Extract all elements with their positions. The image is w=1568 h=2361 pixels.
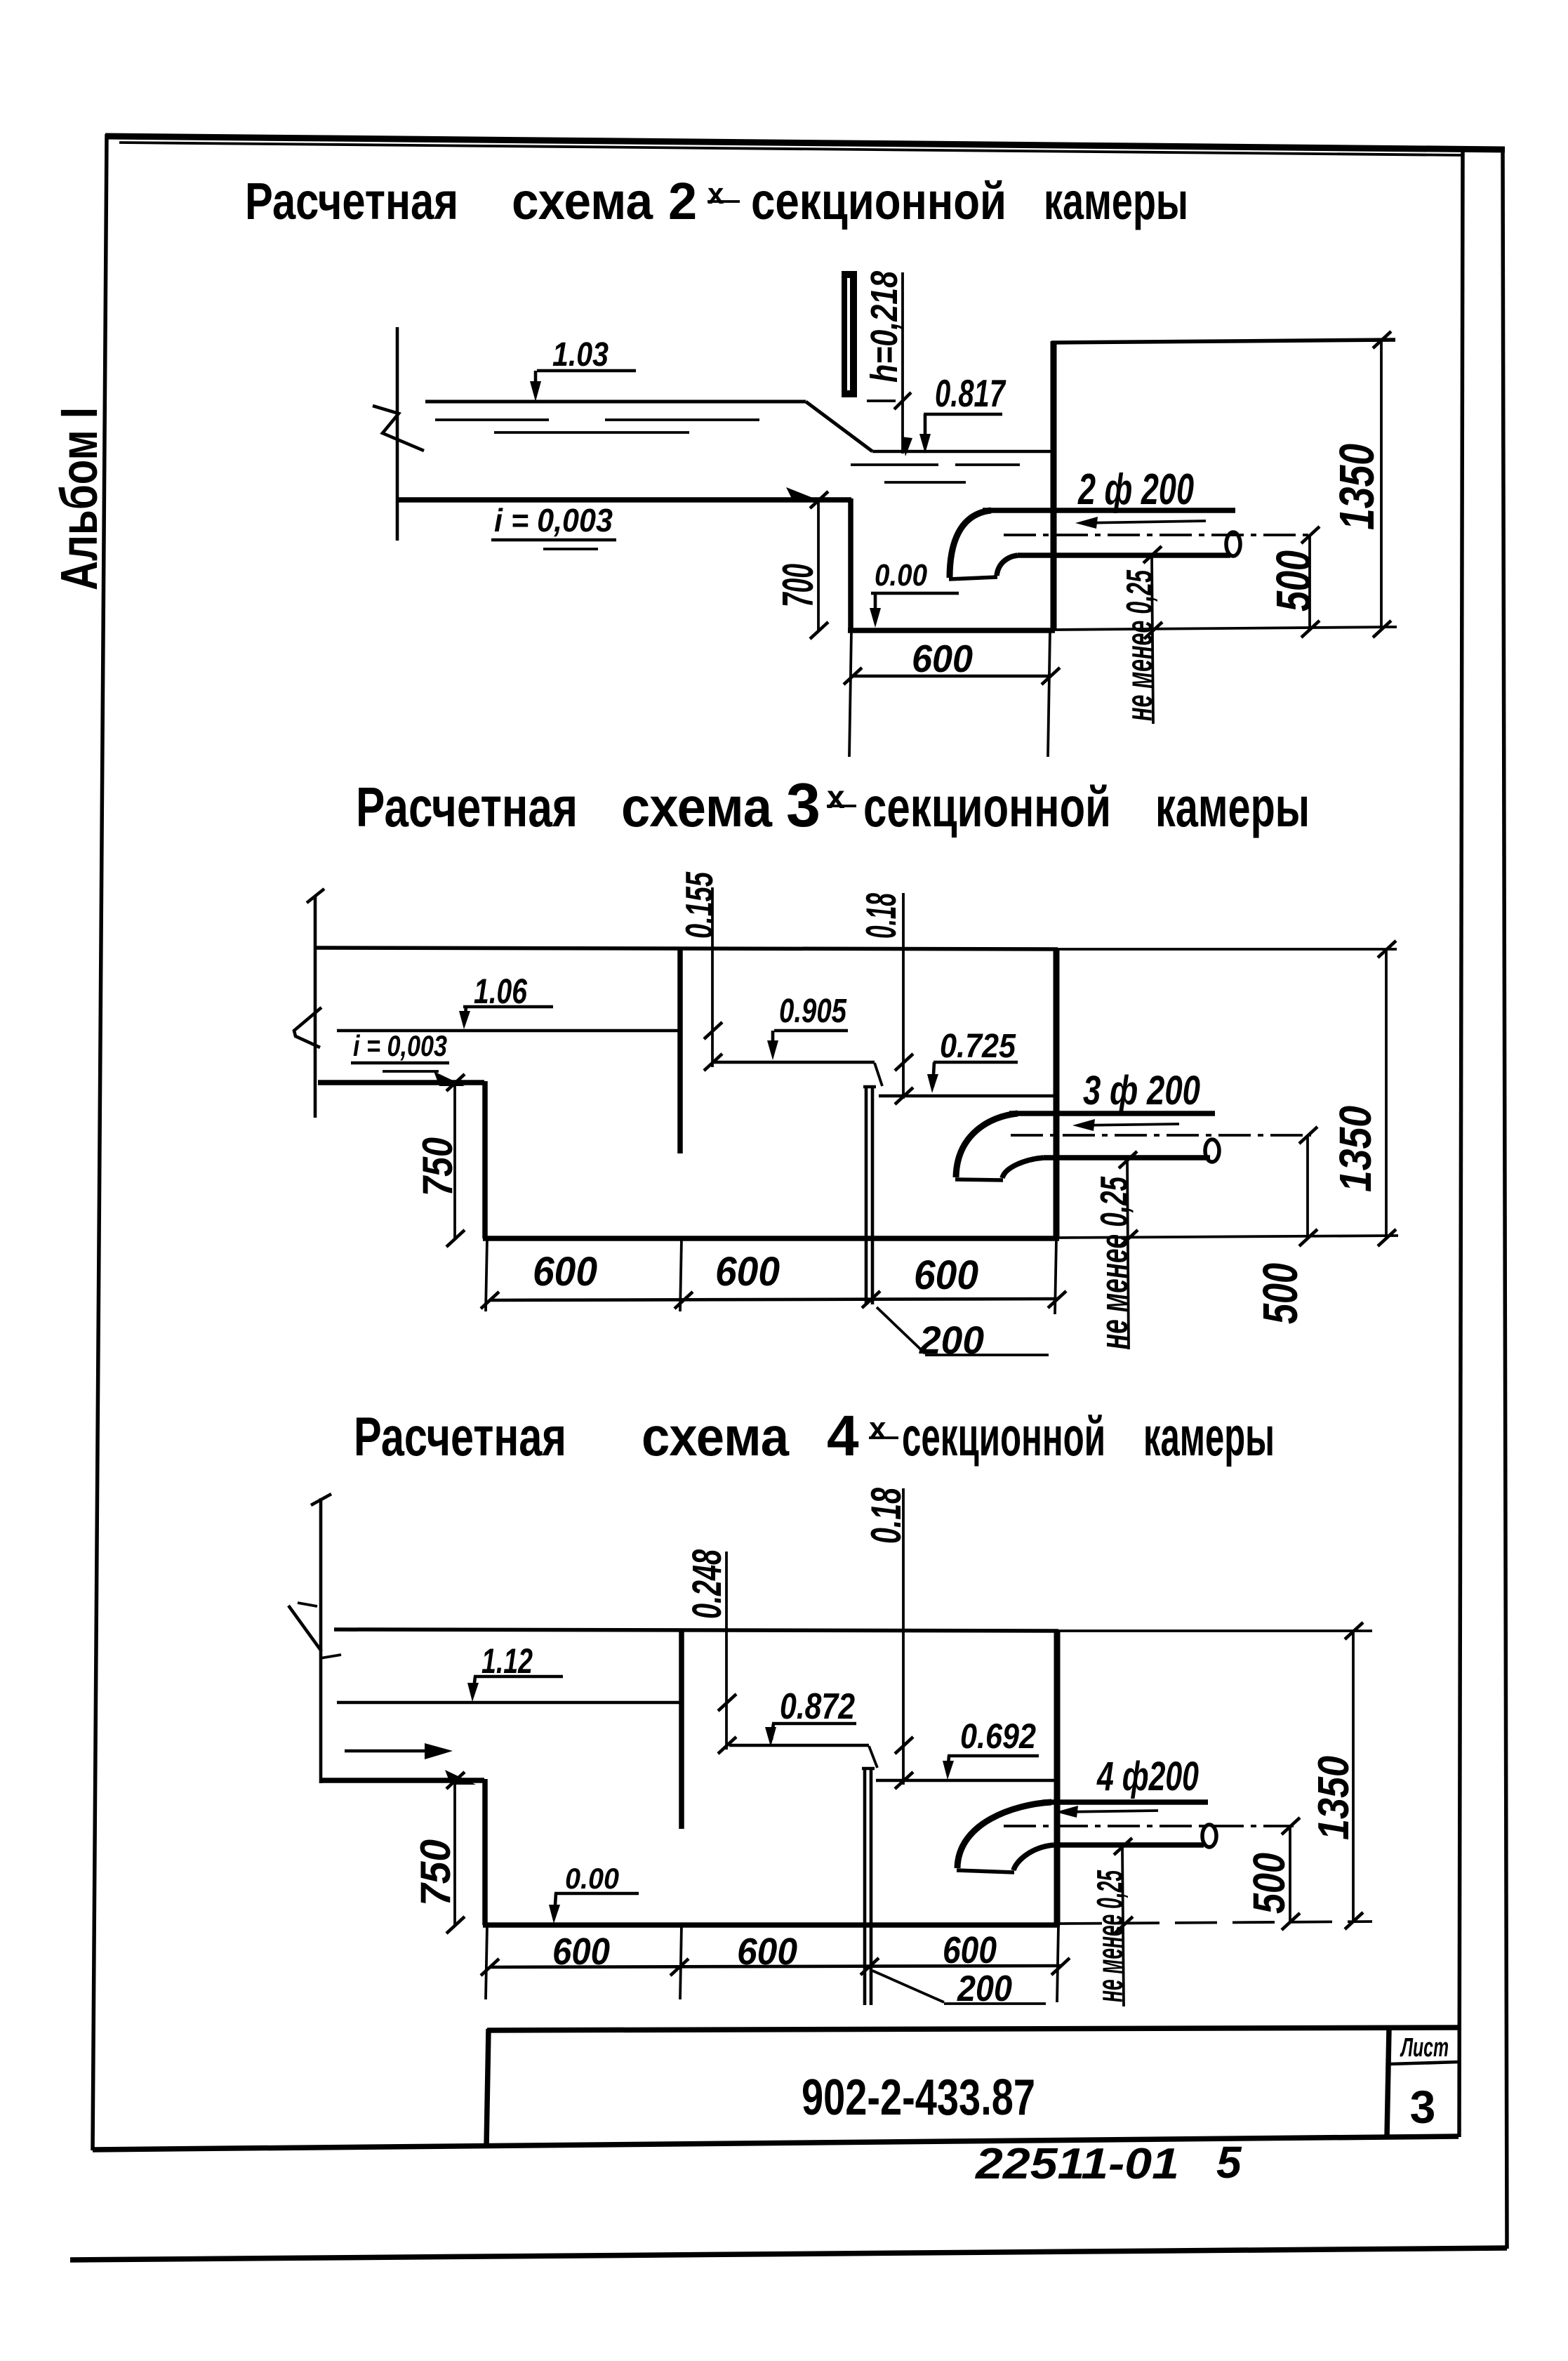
svg-text:200: 200 — [957, 1969, 1012, 2009]
svg-text:600: 600 — [715, 1249, 780, 1295]
svg-text:4 ф200: 4 ф200 — [1096, 1754, 1199, 1799]
svg-text:600: 600 — [552, 1931, 610, 1973]
svg-text:0.18: 0.18 — [863, 1488, 910, 1544]
svg-text:не менее 0,25: не менее 0,25 — [1119, 569, 1160, 721]
svg-text:1.06: 1.06 — [474, 972, 528, 1011]
svg-text:700: 700 — [774, 564, 823, 607]
svg-text:22511-01: 22511-01 — [975, 2140, 1179, 2188]
svg-text:0.18: 0.18 — [858, 893, 905, 939]
svg-text:0.817: 0.817 — [935, 371, 1006, 415]
svg-text:2 ф 200: 2 ф 200 — [1077, 465, 1194, 514]
svg-text:1.12: 1.12 — [481, 1641, 533, 1681]
svg-text:1.03: 1.03 — [552, 336, 609, 373]
svg-text:600: 600 — [533, 1249, 597, 1295]
svg-text:0.692: 0.692 — [960, 1717, 1036, 1756]
svg-text:3 ф 200: 3 ф 200 — [1083, 1068, 1200, 1113]
svg-text:h=0,218: h=0,218 — [863, 271, 905, 383]
svg-text:750: 750 — [414, 1137, 461, 1196]
svg-text:i = 0,003: i = 0,003 — [494, 502, 613, 538]
svg-text:3: 3 — [1410, 2081, 1436, 2133]
svg-text:600: 600 — [943, 1929, 997, 1971]
svg-text:0.155: 0.155 — [677, 871, 721, 939]
svg-text:500: 500 — [1253, 1263, 1308, 1324]
svg-text:0.00: 0.00 — [565, 1862, 619, 1895]
svg-text:0.872: 0.872 — [780, 1686, 855, 1727]
svg-text:500: 500 — [1244, 1853, 1294, 1914]
svg-text:1350: 1350 — [1329, 444, 1384, 530]
svg-text:1350: 1350 — [1310, 1756, 1358, 1840]
svg-text:Альбом I: Альбом I — [50, 407, 108, 590]
svg-text:Лист: Лист — [1400, 2033, 1449, 2063]
svg-text:200: 200 — [919, 1318, 984, 1362]
svg-text:0.905: 0.905 — [779, 993, 847, 1030]
svg-text:i = 0,003: i = 0,003 — [353, 1029, 447, 1062]
svg-text:не менее 0,25: не менее 0,25 — [1092, 1176, 1136, 1349]
svg-text:не менее 0,25: не менее 0,25 — [1090, 1870, 1131, 2002]
svg-text:0.248: 0.248 — [684, 1549, 730, 1619]
svg-text:1350: 1350 — [1330, 1106, 1381, 1192]
svg-text:600: 600 — [914, 1252, 978, 1298]
svg-text:0.00: 0.00 — [875, 558, 927, 593]
svg-text:750: 750 — [412, 1839, 459, 1906]
svg-text:500: 500 — [1266, 550, 1321, 611]
svg-text:600: 600 — [737, 1931, 797, 1973]
svg-text:0.725: 0.725 — [940, 1028, 1016, 1065]
svg-text:600: 600 — [912, 637, 973, 680]
svg-text:902-2-433.87: 902-2-433.87 — [802, 2070, 1035, 2126]
svg-text:5: 5 — [1216, 2137, 1242, 2188]
